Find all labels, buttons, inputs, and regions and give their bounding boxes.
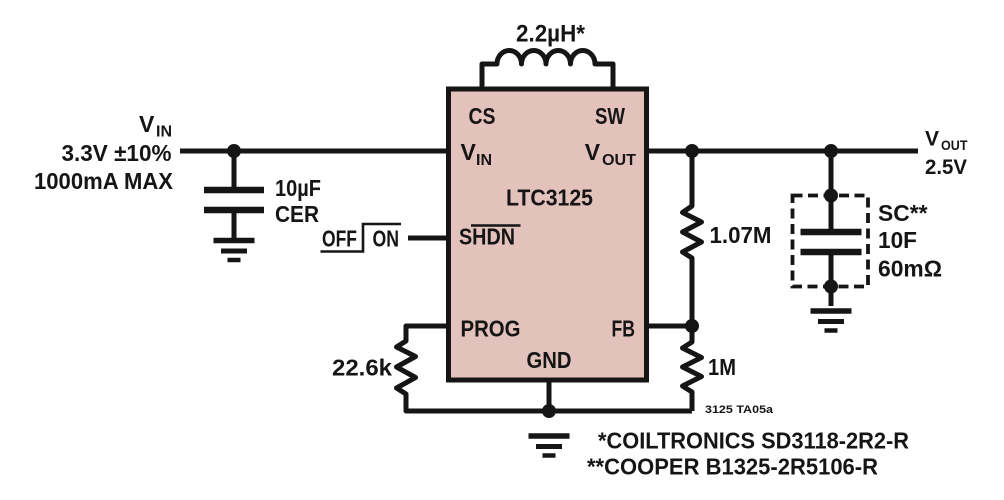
svg-text:22.6k: 22.6k xyxy=(332,355,392,381)
svg-text:OFF: OFF xyxy=(322,226,357,252)
svg-text:FB: FB xyxy=(612,316,636,342)
svg-text:*COILTRONICS SD3118-2R2-R: *COILTRONICS SD3118-2R2-R xyxy=(598,428,909,454)
svg-text:60mΩ: 60mΩ xyxy=(878,256,942,282)
svg-text:1.07M: 1.07M xyxy=(710,222,772,248)
svg-text:**COOPER B1325-2R5106-R: **COOPER B1325-2R5106-R xyxy=(587,454,878,480)
svg-text:SC**: SC** xyxy=(878,200,928,226)
svg-text:10µF: 10µF xyxy=(275,175,321,201)
svg-text:V: V xyxy=(139,111,155,137)
svg-text:PROG: PROG xyxy=(461,316,521,342)
svg-text:GND: GND xyxy=(527,347,572,373)
svg-text:IN: IN xyxy=(156,124,172,141)
svg-text:SHDN: SHDN xyxy=(459,224,515,250)
svg-text:ON: ON xyxy=(373,226,400,252)
svg-text:3.3V ±10%: 3.3V ±10% xyxy=(62,140,172,166)
svg-text:3125 TA05a: 3125 TA05a xyxy=(705,404,774,416)
svg-text:10F: 10F xyxy=(878,227,917,253)
svg-text:1000mA MAX: 1000mA MAX xyxy=(34,168,174,194)
svg-text:2.2µH*: 2.2µH* xyxy=(516,21,586,48)
svg-text:V: V xyxy=(585,139,601,165)
svg-text:LTC3125: LTC3125 xyxy=(506,185,593,211)
svg-text:V: V xyxy=(925,128,939,151)
svg-text:V: V xyxy=(461,139,477,165)
svg-text:OUT: OUT xyxy=(941,137,968,153)
svg-text:IN: IN xyxy=(476,152,492,169)
svg-text:2.5V: 2.5V xyxy=(925,156,967,179)
svg-text:OUT: OUT xyxy=(602,152,636,169)
svg-text:CS: CS xyxy=(469,103,496,129)
svg-text:1M: 1M xyxy=(708,354,736,380)
svg-text:SW: SW xyxy=(595,103,625,129)
svg-text:CER: CER xyxy=(275,201,319,227)
